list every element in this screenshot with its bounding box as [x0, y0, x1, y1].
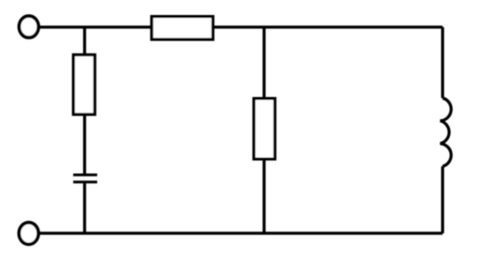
wire: right branch upper: [441, 27, 444, 98]
terminal (top-left input): [19, 16, 38, 38]
resistor R1 (series, top): [152, 17, 213, 40]
capacitor C1 bottom plate: [73, 181, 97, 184]
capacitor C1 top plate: [73, 173, 97, 176]
wire: middle shunt branch: [263, 27, 266, 233]
wire: bottom rail: [40, 232, 443, 235]
resistor R3 (middle shunt): [254, 99, 275, 160]
inductor L1 (3-loop coil): [440, 98, 451, 166]
wire: top rail: [40, 26, 443, 29]
wire: right branch lower: [441, 166, 444, 233]
wire: left shunt branch (lower): [83, 182, 86, 233]
wire: left shunt branch (upper): [83, 27, 86, 175]
terminal (bottom-left input): [19, 223, 38, 245]
resistor R2 (left shunt): [73, 55, 94, 115]
